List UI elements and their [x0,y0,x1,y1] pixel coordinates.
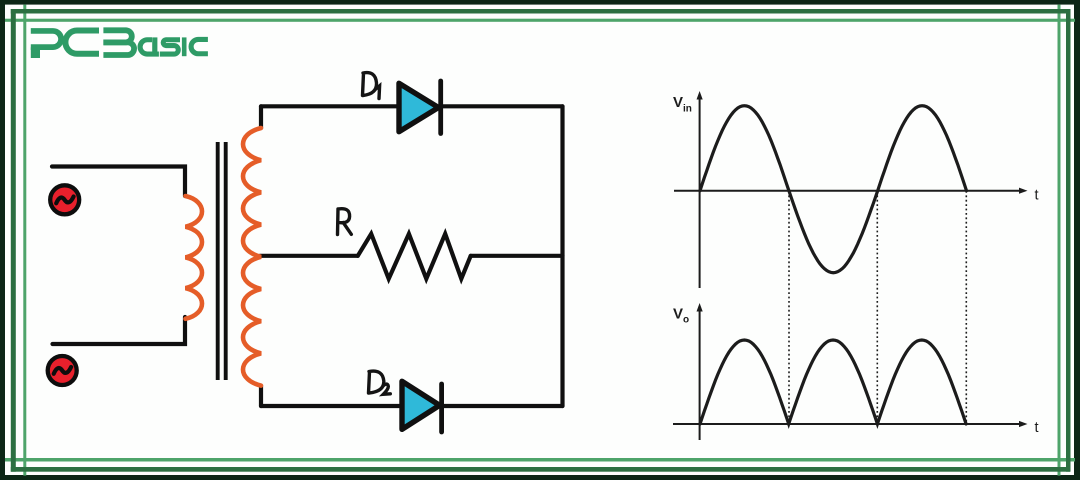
wire resistor to rail [471,254,563,258]
Vo x-axis [673,423,1022,425]
right rail wire [560,106,564,406]
logo letter C [65,31,99,54]
logo letter P [31,31,61,47]
svg-text:t: t [1035,420,1039,436]
value label D1 [363,73,380,99]
transformer T1 core [218,142,226,380]
value label D2 [369,371,391,394]
wire primary top [52,167,185,197]
resistor R zigzag [358,234,471,279]
dotted line 3 [965,191,967,424]
Vin y-axis [699,95,701,288]
logo letter i [182,37,187,56]
Vo y-axis [699,307,701,440]
logo letter s [160,40,180,54]
transformer T1 primary winding [186,196,203,319]
dotted line 2 [876,191,878,424]
ac source V1 (top terminal) [50,185,79,214]
logo letter c [191,39,208,53]
center tap wire [260,254,358,258]
transformer T1 secondary winding (center-tapped) [243,128,261,386]
Vin sine curve [700,106,967,273]
wire secondary top to rail [259,106,263,128]
PCBasic logo [31,30,208,58]
diode D2 [402,381,442,432]
top rail wire [261,104,563,108]
dotted line 1 [788,191,790,424]
bottom rail wire [261,404,563,408]
wire secondary bottom to rail [259,386,263,406]
ac source V2 (bottom terminal) [48,356,77,385]
Vin x-axis [674,190,1022,192]
logo letter a [140,40,159,54]
wire primary bottom [53,317,186,344]
diode D1 [399,81,441,134]
logo letter B [103,30,131,42]
value label R [338,209,352,235]
svg-text:t: t [1035,188,1039,204]
Vo rectified curve [700,340,966,424]
